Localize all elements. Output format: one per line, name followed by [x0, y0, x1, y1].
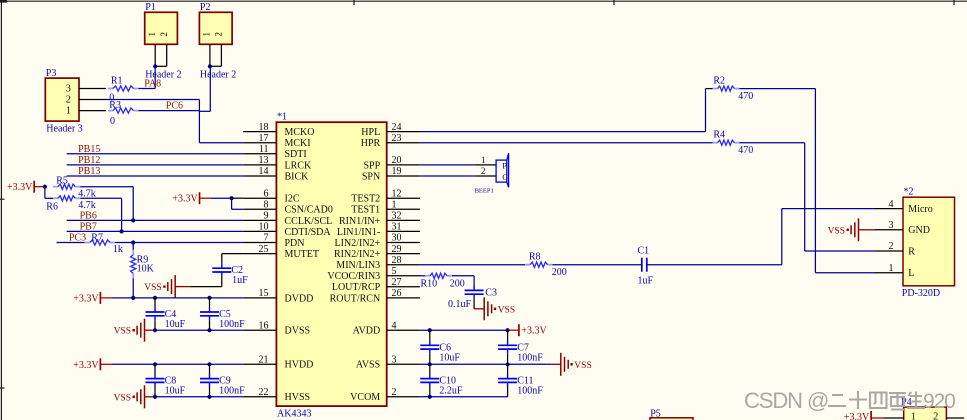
capacitor C10 — [429, 364, 431, 374]
svg-text:VCOC/RIN3: VCOC/RIN3 — [327, 271, 380, 282]
svg-text:HPR: HPR — [361, 138, 381, 149]
power +3.3V at AVDD — [508, 329, 519, 331]
svg-text:LIN1/IN1-: LIN1/IN1- — [337, 227, 380, 238]
wire AVSS rail — [420, 363, 552, 365]
svg-text:3: 3 — [66, 84, 71, 95]
wire HVSS rail — [155, 396, 243, 398]
capacitor C7 — [507, 330, 509, 341]
svg-text:VSS: VSS — [574, 361, 591, 371]
svg-text:12: 12 — [392, 188, 402, 199]
svg-text:P: P — [502, 161, 507, 171]
svg-text:11: 11 — [259, 144, 269, 155]
svg-text:100nF: 100nF — [517, 386, 543, 397]
wire from P2 down to PC6 — [209, 66, 211, 111]
capacitor C6 — [429, 330, 431, 341]
U1 pin 32 RIN1/IN+ — [387, 219, 420, 221]
U1 pin 20 SPP — [387, 164, 420, 166]
svg-text:PB13: PB13 — [78, 166, 100, 177]
wire net PC3 — [57, 242, 85, 244]
ground VSS at HVSS — [144, 385, 146, 408]
ground VSS at C2 — [175, 286, 190, 288]
connector *2 PD-320D — [903, 197, 955, 286]
wire C1 to PD-320D pin 4 — [647, 264, 782, 266]
U1 pin 29 RIN2/IN2+ — [387, 253, 420, 255]
junction PB7/R6 — [120, 229, 124, 233]
svg-text:VCOM: VCOM — [350, 392, 380, 403]
svg-text:100nF: 100nF — [219, 386, 245, 397]
resistor R1 — [108, 88, 113, 90]
svg-text:32: 32 — [392, 211, 402, 222]
svg-text:RIN1/IN+: RIN1/IN+ — [339, 216, 381, 227]
svg-text:PA8: PA8 — [144, 79, 161, 90]
svg-text:100nF: 100nF — [219, 319, 245, 330]
svg-text:2.2uF: 2.2uF — [439, 386, 463, 397]
power +3.3V at I2C — [199, 192, 201, 204]
wire joining P2 pins — [210, 65, 222, 67]
resistor R6 — [53, 197, 58, 199]
U1 pin 14 BICK — [243, 175, 276, 177]
svg-text:AK4343: AK4343 — [277, 409, 311, 420]
U1 pin 31 LIN1/IN1- — [387, 230, 420, 232]
resistor R10 — [425, 275, 430, 277]
svg-text:G: G — [502, 172, 508, 182]
wire R8 to C1 — [553, 264, 642, 266]
svg-text:GND: GND — [908, 225, 930, 236]
svg-text:P3: P3 — [46, 68, 57, 79]
svg-text:1: 1 — [481, 155, 486, 165]
U1 pin 2 VCOM — [387, 396, 420, 398]
sheet border — [0, 0, 967, 2]
svg-text:CSDN @: CSDN @ — [744, 388, 828, 413]
svg-text:PB15: PB15 — [78, 144, 100, 155]
resistor R8 — [525, 264, 530, 266]
svg-text:2: 2 — [481, 166, 486, 176]
svg-text:MCKO: MCKO — [285, 127, 315, 138]
svg-text:R8: R8 — [529, 252, 541, 263]
PD-320D pin 1 L — [874, 272, 903, 274]
wire SPN to speaker — [420, 175, 475, 177]
svg-text:19: 19 — [392, 166, 402, 177]
junction C10 bottom — [428, 395, 432, 399]
svg-text:LRCK: LRCK — [285, 160, 312, 171]
svg-text:CSN/CAD0: CSN/CAD0 — [285, 205, 333, 216]
P3 pin 1 — [79, 110, 106, 112]
svg-text:14: 14 — [259, 166, 269, 177]
power +3.3V at R5/R6 — [33, 181, 35, 193]
wire VCOM rail — [420, 396, 508, 398]
wire DVDD rail — [112, 297, 243, 299]
wire HVDD rail — [112, 363, 243, 365]
svg-text:ROUT/RCN: ROUT/RCN — [330, 293, 381, 304]
svg-text:10K: 10K — [137, 264, 155, 275]
U1 pin 1 TEST1 — [387, 208, 420, 210]
svg-text:1uF: 1uF — [638, 275, 654, 286]
svg-text:2: 2 — [889, 241, 894, 252]
svg-text:3: 3 — [889, 220, 894, 231]
U1 pin 15 DVDD — [243, 297, 276, 299]
wire PC6 vertical to MCKI — [198, 100, 200, 143]
wire supply down to R6 — [44, 187, 46, 199]
svg-text:R1: R1 — [111, 75, 123, 86]
svg-text:0.1uF: 0.1uF — [448, 299, 472, 310]
svg-text:+3.3V: +3.3V — [73, 293, 99, 304]
svg-text:SDTI: SDTI — [285, 149, 307, 160]
junction C5 top — [207, 296, 211, 300]
P3 pin 2 — [79, 99, 106, 101]
wire to CSN/CAD0 pin — [231, 198, 233, 209]
svg-text:R10: R10 — [421, 278, 438, 289]
U1 pin 27 LOUT/RCP — [387, 286, 420, 288]
svg-text:CCLK/SCL: CCLK/SCL — [285, 216, 333, 227]
capacitor C3 — [473, 286, 475, 291]
connector P3 (Header 3) — [45, 78, 79, 121]
wire R2 to PD-320D pin 1 — [739, 88, 815, 90]
svg-text:HPL: HPL — [361, 127, 380, 138]
ground VSS at C3 — [474, 308, 484, 310]
BEEP1 pin 1 — [475, 164, 497, 166]
junction PB6/R5 — [131, 218, 135, 222]
svg-text:MIN/LIN3: MIN/LIN3 — [336, 260, 380, 271]
wire PC6 horizontal — [106, 99, 199, 101]
resistor R9 — [132, 250, 134, 255]
svg-text:10uF: 10uF — [439, 352, 460, 363]
U1 pin 7 PDN — [243, 242, 276, 244]
svg-text:C1: C1 — [638, 246, 650, 257]
svg-text:29: 29 — [392, 244, 402, 255]
svg-text:4: 4 — [392, 320, 397, 331]
svg-text:R2: R2 — [713, 75, 725, 86]
P2 pin 2 — [220, 44, 222, 66]
P4 pin 2 — [946, 417, 964, 419]
junction C6 bottom — [428, 362, 432, 366]
svg-text:BICK: BICK — [285, 171, 310, 182]
U1 pin 26 ROUT/RCN — [387, 297, 420, 299]
svg-text:22: 22 — [259, 387, 269, 398]
svg-text:PDN: PDN — [285, 238, 305, 249]
svg-text:10uF: 10uF — [165, 386, 186, 397]
svg-text:R4: R4 — [713, 130, 725, 141]
svg-text:1uF: 1uF — [232, 275, 248, 286]
svg-text:15: 15 — [259, 288, 269, 299]
junction C8 bottom — [153, 395, 157, 399]
BEEP1 pin 2 — [475, 175, 497, 177]
svg-text:Header 2: Header 2 — [200, 70, 236, 81]
svg-text:470: 470 — [738, 145, 753, 156]
capacitor C1 — [641, 258, 643, 272]
capacitor C8 — [154, 364, 156, 374]
U1 pin 24 HPL — [387, 131, 420, 133]
svg-text:21: 21 — [259, 355, 269, 366]
U1 pin 22 HVSS — [243, 396, 276, 398]
svg-text:VSS: VSS — [498, 305, 515, 315]
U1 pin 17 MCKI — [243, 142, 276, 144]
svg-text:LIN2/IN2+: LIN2/IN2+ — [335, 238, 381, 249]
junction C5 bottom — [207, 328, 211, 332]
svg-text:16: 16 — [259, 320, 269, 331]
wire PA8 from R1 to P1 — [139, 88, 156, 90]
svg-text:TEST1: TEST1 — [351, 205, 380, 216]
resistor R4 — [713, 142, 718, 144]
svg-text:17: 17 — [259, 133, 269, 144]
power +3.3V at HVDD — [99, 358, 101, 370]
svg-text:SPP: SPP — [364, 160, 381, 171]
wire R4 to PD-320D pin 2 — [739, 142, 804, 144]
wire AVDD rail — [420, 329, 508, 331]
svg-text:CDTI/SDA: CDTI/SDA — [285, 227, 332, 238]
svg-text:PC3: PC3 — [69, 233, 86, 244]
svg-text:+3.3V: +3.3V — [844, 412, 870, 420]
svg-text:8: 8 — [264, 200, 269, 211]
wire from PDN junction down to R9 — [132, 243, 134, 255]
wire HPL to R2 — [420, 131, 706, 133]
wire R10 to C3 — [452, 275, 474, 277]
wire joining P1 pins — [155, 65, 167, 67]
junction I2C supply — [230, 196, 234, 200]
svg-text:4.7k: 4.7k — [78, 200, 96, 211]
svg-text:1: 1 — [889, 263, 894, 274]
P2 pin 1 — [209, 44, 211, 66]
capacitor C4 — [154, 298, 156, 308]
svg-text:7: 7 — [264, 233, 269, 244]
svg-text:26: 26 — [392, 288, 402, 299]
svg-text:PC6: PC6 — [166, 101, 183, 112]
svg-text:LOUT/RCP: LOUT/RCP — [332, 282, 381, 293]
svg-text:200: 200 — [450, 278, 465, 289]
svg-text:HVSS: HVSS — [285, 392, 311, 403]
svg-text:6: 6 — [264, 188, 269, 199]
svg-text:2: 2 — [159, 32, 169, 37]
ground VSS at DVSS — [144, 319, 146, 342]
wire from R6 to PB7 line — [80, 197, 121, 199]
U1 pin 9 CCLK/SCL — [243, 219, 276, 221]
svg-text:PB7: PB7 — [80, 222, 97, 233]
svg-text:24: 24 — [392, 122, 402, 133]
U1 pin 21 HVDD — [243, 363, 276, 365]
U1 pin 11 SDTI — [243, 153, 276, 155]
wire DVSS rail — [155, 329, 243, 331]
wire from R5 to PB6 line — [80, 186, 133, 188]
junction C4 bottom — [153, 328, 157, 332]
capacitor C11 — [507, 364, 509, 374]
junction C7 top — [506, 328, 510, 332]
junction R7/R9 — [131, 240, 135, 244]
ground VSS at AVSS — [552, 363, 561, 365]
junction R9/DVDD — [131, 296, 135, 300]
wire net PB13 — [67, 175, 244, 177]
svg-text:9: 9 — [264, 211, 269, 222]
wire MUTET to C2 — [222, 253, 243, 255]
svg-text:5: 5 — [392, 266, 397, 277]
svg-text:200: 200 — [552, 267, 567, 278]
wire VCOC to R10 — [420, 275, 425, 277]
svg-text:AVDD: AVDD — [353, 326, 381, 337]
PD-320D pin 2 R — [874, 250, 903, 252]
junction C6 top — [428, 328, 432, 332]
junction C4 top — [153, 296, 157, 300]
svg-text:2: 2 — [392, 387, 397, 398]
svg-text:P2: P2 — [200, 2, 211, 13]
svg-text:C3: C3 — [485, 288, 497, 299]
wire C3 to VSS — [473, 299, 475, 309]
svg-text:R7: R7 — [91, 233, 103, 244]
U1 pin 5 VCOC/RIN3 — [387, 275, 420, 277]
wire from R3 to PC6 vertical — [139, 110, 200, 112]
U1 pin 19 SPN — [387, 175, 420, 177]
svg-text:10: 10 — [259, 222, 269, 233]
P1 pin 2 — [166, 44, 168, 66]
svg-text:L: L — [908, 268, 914, 279]
svg-text:RIN2/IN2+: RIN2/IN2+ — [334, 249, 381, 260]
svg-text:470: 470 — [738, 91, 753, 102]
svg-text:PD-320D: PD-320D — [902, 288, 940, 299]
U1 pin 13 LRCK — [243, 164, 276, 166]
svg-text:25: 25 — [259, 244, 269, 255]
wire net PB12 — [67, 164, 244, 166]
PD-320D pin 3 GND — [874, 229, 903, 231]
ground VSS at PD-320D GND — [859, 229, 875, 231]
svg-text:10uF: 10uF — [165, 319, 186, 330]
svg-text:20: 20 — [392, 155, 402, 166]
U1 pin 4 AVDD — [387, 329, 420, 331]
U1 pin 23 HPR — [387, 142, 420, 144]
junction at P2 — [208, 64, 212, 68]
resistor R2 — [713, 88, 718, 90]
svg-text:1: 1 — [202, 32, 212, 37]
U1 pin 16 DVSS — [243, 329, 276, 331]
PD-320D pin 4 Micro — [874, 208, 903, 210]
svg-text:BEEP1: BEEP1 — [475, 187, 494, 194]
svg-text:1: 1 — [911, 412, 916, 420]
junction R5/R6 supply — [43, 185, 47, 189]
svg-text:TEST2: TEST2 — [351, 194, 380, 205]
svg-text:*1: *1 — [277, 112, 287, 123]
svg-text:DVSS: DVSS — [285, 326, 311, 337]
wire HPR to R4 — [420, 142, 713, 144]
power +3.3V at P4 — [870, 411, 872, 420]
connector P1 (Header 2) — [145, 12, 178, 44]
watermark CSDN — [744, 388, 955, 413]
U1 pin 6 I2C — [243, 197, 276, 199]
resistor R3 — [108, 110, 113, 112]
wire to I2C pin — [232, 197, 244, 199]
U1 pin 30 LIN2/IN2+ — [387, 242, 420, 244]
svg-text:VSS: VSS — [828, 226, 845, 236]
wire from R7 to PDN — [115, 242, 243, 244]
svg-text:AVSS: AVSS — [356, 360, 380, 371]
svg-text:920: 920 — [923, 390, 955, 413]
wire from R9 to DVDD line — [132, 278, 134, 298]
svg-text:28: 28 — [392, 255, 402, 266]
svg-text:DVDD: DVDD — [285, 293, 314, 304]
P1 pin 1 — [154, 44, 156, 66]
svg-text:4: 4 — [889, 199, 894, 210]
svg-text:1: 1 — [392, 200, 397, 211]
resistor R7 — [85, 242, 90, 244]
svg-text:P1: P1 — [145, 2, 156, 13]
P3 pin 3 — [79, 88, 106, 90]
capacitor C5 — [209, 298, 211, 308]
svg-text:VSS: VSS — [114, 327, 131, 337]
svg-text:2: 2 — [66, 95, 71, 106]
svg-text:MUTET: MUTET — [285, 249, 319, 260]
svg-text:31: 31 — [392, 222, 402, 233]
connector P2 (Header 2) — [199, 12, 232, 44]
svg-text:VSS: VSS — [114, 393, 131, 403]
junction C9 top — [207, 362, 211, 366]
svg-text:30: 30 — [392, 233, 402, 244]
svg-text:Micro: Micro — [908, 204, 932, 215]
svg-text:HVDD: HVDD — [285, 360, 314, 371]
resistor R5 — [53, 186, 58, 188]
wire net PB7 — [67, 230, 244, 232]
svg-text:27: 27 — [392, 277, 402, 288]
junction C9 bottom — [207, 395, 211, 399]
svg-text:Header 3: Header 3 — [46, 124, 82, 135]
svg-text:R: R — [908, 246, 915, 257]
U1 pin 8 CSN/CAD0 — [243, 208, 276, 210]
U1 pin 25 MUTET — [243, 253, 276, 255]
svg-text:0: 0 — [110, 116, 115, 127]
junction at P1 — [153, 64, 157, 68]
svg-text:23: 23 — [392, 133, 402, 144]
wire MIN/LIN3 to R8 — [420, 264, 525, 266]
wire supply to I2C junction — [211, 197, 232, 199]
capacitor C9 — [209, 364, 211, 374]
svg-text:MCKI: MCKI — [285, 138, 311, 149]
U1 pin 18 MCKO — [243, 131, 276, 133]
junction C8 top — [153, 362, 157, 366]
wire net PB15 — [67, 153, 244, 155]
U1 pin 10 CDTI/SDA — [243, 230, 276, 232]
svg-text:SPN: SPN — [362, 171, 380, 182]
svg-text:3: 3 — [392, 355, 397, 366]
svg-text:13: 13 — [259, 155, 269, 166]
wire C2 to VSS — [221, 277, 223, 287]
IC *1 AK4343 — [276, 122, 386, 406]
svg-text:1k: 1k — [113, 244, 123, 255]
wire SPP to speaker — [420, 164, 475, 166]
speaker BEEP1 — [496, 160, 507, 182]
svg-text:+3.3V: +3.3V — [7, 182, 33, 193]
junction C7 bottom — [506, 362, 510, 366]
svg-text:1: 1 — [147, 32, 157, 37]
svg-text:*2: *2 — [904, 187, 914, 198]
wire net PB6 — [67, 219, 244, 221]
svg-text:R5: R5 — [56, 176, 68, 187]
svg-text:2: 2 — [214, 32, 224, 37]
svg-text:1: 1 — [66, 106, 71, 117]
U1 pin 12 TEST2 — [387, 197, 420, 199]
svg-text:100nF: 100nF — [517, 352, 543, 363]
capacitor C2 — [221, 264, 223, 269]
svg-text:I2C: I2C — [285, 194, 300, 205]
svg-text:+3.3V: +3.3V — [172, 194, 198, 205]
svg-text:R6: R6 — [46, 201, 58, 212]
svg-text:VSS: VSS — [144, 283, 161, 293]
svg-text:R3: R3 — [109, 100, 121, 111]
svg-text:+3.3V: +3.3V — [521, 326, 547, 337]
P4 pin 1 — [883, 417, 903, 419]
svg-text:PB6: PB6 — [80, 211, 97, 222]
svg-text:+3.3V: +3.3V — [73, 360, 99, 371]
U1 pin 28 MIN/LIN3 — [387, 264, 420, 266]
svg-text:18: 18 — [259, 122, 269, 133]
U1 pin 3 AVSS — [387, 363, 420, 365]
svg-text:PB12: PB12 — [78, 155, 100, 166]
power +3.3V at DVDD — [99, 292, 101, 304]
